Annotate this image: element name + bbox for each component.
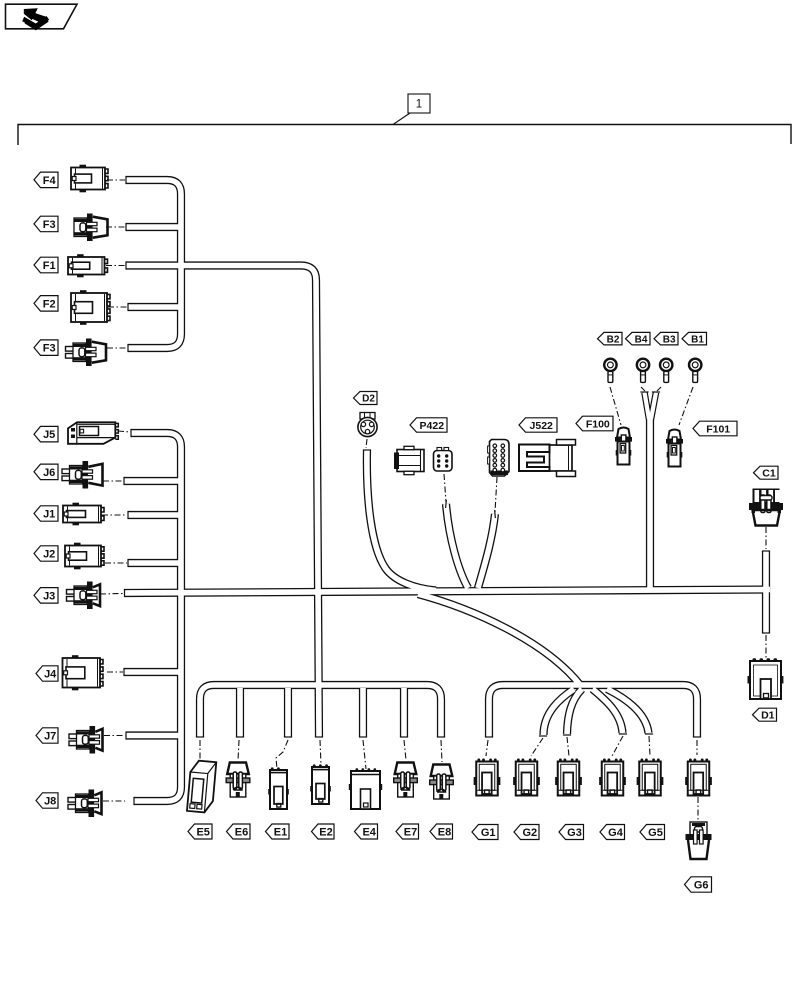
wire E6 drop — [236, 688, 244, 737]
wire E-bus — [200, 685, 441, 737]
label B3 — [654, 332, 678, 345]
svg-text:F1: F1 — [43, 260, 56, 272]
svg-text:D1: D1 — [761, 710, 775, 722]
wire main bus — [125, 590, 771, 594]
leader G6 — [697, 797, 699, 820]
leader F4 — [107, 179, 125, 181]
label F2 — [34, 296, 58, 312]
leader J6 — [103, 480, 123, 482]
label J522 — [519, 418, 557, 432]
connector F3b — [66, 339, 107, 367]
svg-text:G2: G2 — [522, 827, 537, 839]
label E8 — [430, 824, 453, 839]
connector F1 — [68, 254, 108, 277]
wire end caps — [124, 176, 770, 805]
label B1 — [682, 332, 707, 345]
leader B1-F101 — [679, 387, 693, 425]
connector J4 — [63, 655, 104, 690]
leader lines — [100, 180, 766, 820]
ring terminal B4 — [637, 359, 649, 383]
label G4 — [600, 825, 625, 840]
leader P422 — [444, 474, 446, 502]
connector E2 — [310, 764, 331, 804]
leader E5 — [199, 740, 201, 760]
leader E1 — [276, 740, 288, 769]
harness wires — [645, 393, 657, 420]
label E5 — [188, 824, 212, 839]
connector E7 — [394, 763, 418, 798]
label B2 — [598, 332, 623, 345]
svg-text:J8: J8 — [44, 796, 56, 808]
svg-text:E1: E1 — [274, 827, 287, 839]
label J4 — [36, 666, 58, 681]
label C1 — [754, 466, 779, 479]
svg-text:J6: J6 — [43, 467, 55, 479]
connector G1 — [474, 759, 501, 796]
label J1 — [34, 506, 58, 521]
label E2 — [312, 824, 335, 839]
ring terminal B3 — [660, 359, 672, 383]
label G5 — [640, 825, 665, 840]
svg-text:E7: E7 — [404, 827, 417, 839]
svg-text:J5: J5 — [43, 429, 55, 441]
leader J4 — [107, 671, 123, 673]
svg-text:J3: J3 — [43, 590, 55, 602]
leader F3 — [106, 226, 125, 228]
ring terminal B2 — [604, 359, 616, 383]
svg-text:F100: F100 — [586, 418, 610, 430]
leader G2 — [531, 738, 543, 756]
leader J7 — [104, 735, 125, 737]
wire G2 branch — [544, 689, 575, 735]
leader B4 — [641, 387, 645, 391]
svg-text:E6: E6 — [235, 827, 248, 839]
label F3 — [34, 340, 58, 356]
leader F1 — [106, 265, 125, 267]
wire P422 branch — [446, 504, 468, 588]
connector D2 — [358, 413, 377, 437]
wire E4 drop — [359, 688, 367, 737]
svg-text:F3: F3 — [43, 219, 56, 231]
leader F3b — [107, 347, 127, 349]
leader E4 — [363, 740, 366, 769]
svg-text:J2: J2 — [43, 549, 55, 561]
connector F4 — [71, 165, 108, 193]
svg-text:B1: B1 — [691, 334, 704, 345]
connector J2 — [65, 543, 104, 570]
svg-text:G4: G4 — [608, 827, 624, 839]
fuse F100 — [615, 428, 632, 465]
wire G diagonal — [418, 594, 581, 686]
leader F2 — [108, 306, 127, 308]
wire J1 wire — [128, 511, 181, 519]
leader C1 — [765, 527, 767, 549]
label J6 — [34, 464, 58, 480]
wire D2 wire — [367, 450, 436, 591]
svg-text:J522: J522 — [530, 420, 554, 432]
label F101 — [693, 421, 737, 436]
label E1 — [266, 824, 290, 839]
connector E1 — [268, 767, 289, 809]
connector J7 — [69, 726, 103, 754]
label G1 — [472, 825, 498, 840]
leader E7 — [404, 740, 406, 760]
label E6 — [227, 824, 251, 839]
leader E2 — [320, 740, 321, 765]
wire G-bus — [489, 685, 697, 737]
svg-text:J1: J1 — [43, 509, 55, 521]
label E4 — [355, 824, 378, 839]
svg-text:F4: F4 — [43, 175, 57, 187]
label P422 — [410, 418, 447, 432]
svg-text:J7: J7 — [44, 731, 56, 743]
svg-text:G5: G5 — [648, 827, 663, 839]
label J3 — [34, 588, 58, 604]
wire B-trunk — [646, 416, 654, 588]
label G3 — [559, 825, 584, 840]
svg-text:F2: F2 — [43, 298, 56, 310]
connector D1 — [748, 658, 784, 699]
svg-text:D2: D2 — [362, 394, 375, 405]
wire E7 drop — [400, 688, 408, 737]
connector G2 — [513, 759, 540, 796]
connector C1 — [749, 489, 783, 526]
fuse F101 — [666, 430, 683, 467]
label J2 — [34, 546, 58, 561]
connector G6 — [686, 822, 712, 859]
label E7 — [396, 824, 419, 839]
wire J522 branch — [478, 514, 495, 588]
leader G-row6 — [696, 740, 698, 755]
svg-text:C1: C1 — [762, 468, 776, 480]
connector J5 — [68, 422, 118, 444]
leader J1 — [102, 514, 127, 516]
leader G4 — [612, 736, 623, 756]
label F1 — [34, 257, 58, 273]
label F4 — [34, 172, 58, 188]
svg-text:E4: E4 — [362, 827, 376, 839]
wire F3 wire — [126, 223, 181, 231]
svg-text:B2: B2 — [607, 334, 620, 345]
connector F3 — [74, 214, 108, 242]
leader G5 — [649, 736, 650, 756]
svg-text:E5: E5 — [196, 827, 209, 839]
wire G3 branch — [567, 689, 582, 734]
label J8 — [36, 793, 58, 808]
wire J4 wire — [124, 668, 181, 676]
connector J522 body — [519, 440, 576, 477]
label F3 — [34, 216, 58, 232]
label J5 — [34, 426, 58, 442]
connector J8 — [68, 790, 102, 818]
wire B-arm-left — [645, 393, 650, 420]
connector J522 mate (12-pin) — [488, 440, 509, 477]
svg-text:F101: F101 — [706, 423, 730, 435]
label D1 — [753, 708, 777, 721]
wire J6 wire — [124, 477, 181, 485]
leader B2-F100 — [610, 387, 621, 425]
leader J3 — [100, 593, 123, 596]
connector G5 — [637, 759, 664, 796]
connector E8 — [430, 765, 454, 800]
label G2 — [514, 825, 539, 840]
ring terminal B1 — [689, 359, 701, 383]
leader B3 — [657, 387, 661, 391]
wire J7 wire — [126, 731, 181, 739]
label B4 — [626, 332, 651, 345]
svg-text:P422: P422 — [420, 420, 445, 432]
label G6 — [685, 877, 712, 892]
leader E6 — [238, 740, 239, 761]
wire B-arm-right — [651, 393, 656, 420]
wire G5 branch — [607, 689, 649, 733]
connector G3 — [555, 759, 582, 796]
wire E1 drop — [284, 688, 292, 737]
leader G1 — [486, 740, 488, 756]
wire J2 wire — [128, 559, 181, 567]
wire J-trunk — [131, 433, 181, 801]
leader J8 — [103, 800, 125, 802]
connector J1 — [63, 503, 104, 526]
connector E6 — [226, 763, 250, 798]
svg-text:E8: E8 — [438, 827, 451, 839]
label F100 — [576, 416, 613, 431]
wire C1-D1 link — [762, 551, 770, 633]
leader D2 — [366, 439, 367, 448]
leader J5 — [118, 431, 130, 432]
leader D1 — [765, 635, 767, 658]
connector F2 — [71, 290, 110, 325]
label J7 — [36, 728, 58, 743]
bracket item 1 — [18, 94, 791, 145]
wire G4 branch — [593, 689, 623, 733]
connector E4 — [349, 768, 382, 809]
connector G-row6 — [685, 759, 712, 796]
svg-text:F3: F3 — [43, 343, 56, 355]
logo — [6, 4, 78, 29]
leader J522 — [495, 477, 497, 512]
connector J6 — [62, 461, 103, 489]
connector J3 — [67, 582, 101, 610]
leader G3 — [567, 737, 569, 756]
svg-text:G3: G3 — [567, 827, 582, 839]
leader E8 — [441, 740, 442, 762]
svg-text:G1: G1 — [481, 827, 496, 839]
leader J2 — [105, 562, 127, 564]
wire F1 wire / trunk2 — [126, 266, 319, 738]
connector G4 — [599, 759, 626, 796]
connector P422 — [394, 446, 424, 474]
connector E5 — [187, 760, 216, 813]
svg-text:B3: B3 — [663, 334, 676, 345]
svg-text:E2: E2 — [319, 827, 332, 839]
label D2 — [354, 392, 378, 405]
svg-text:B4: B4 — [635, 334, 648, 345]
wire F-trunk — [126, 180, 181, 348]
svg-text:G6: G6 — [694, 880, 709, 892]
svg-text:1: 1 — [416, 99, 422, 111]
wire F2 wire — [128, 303, 181, 311]
svg-text:J4: J4 — [44, 669, 57, 681]
